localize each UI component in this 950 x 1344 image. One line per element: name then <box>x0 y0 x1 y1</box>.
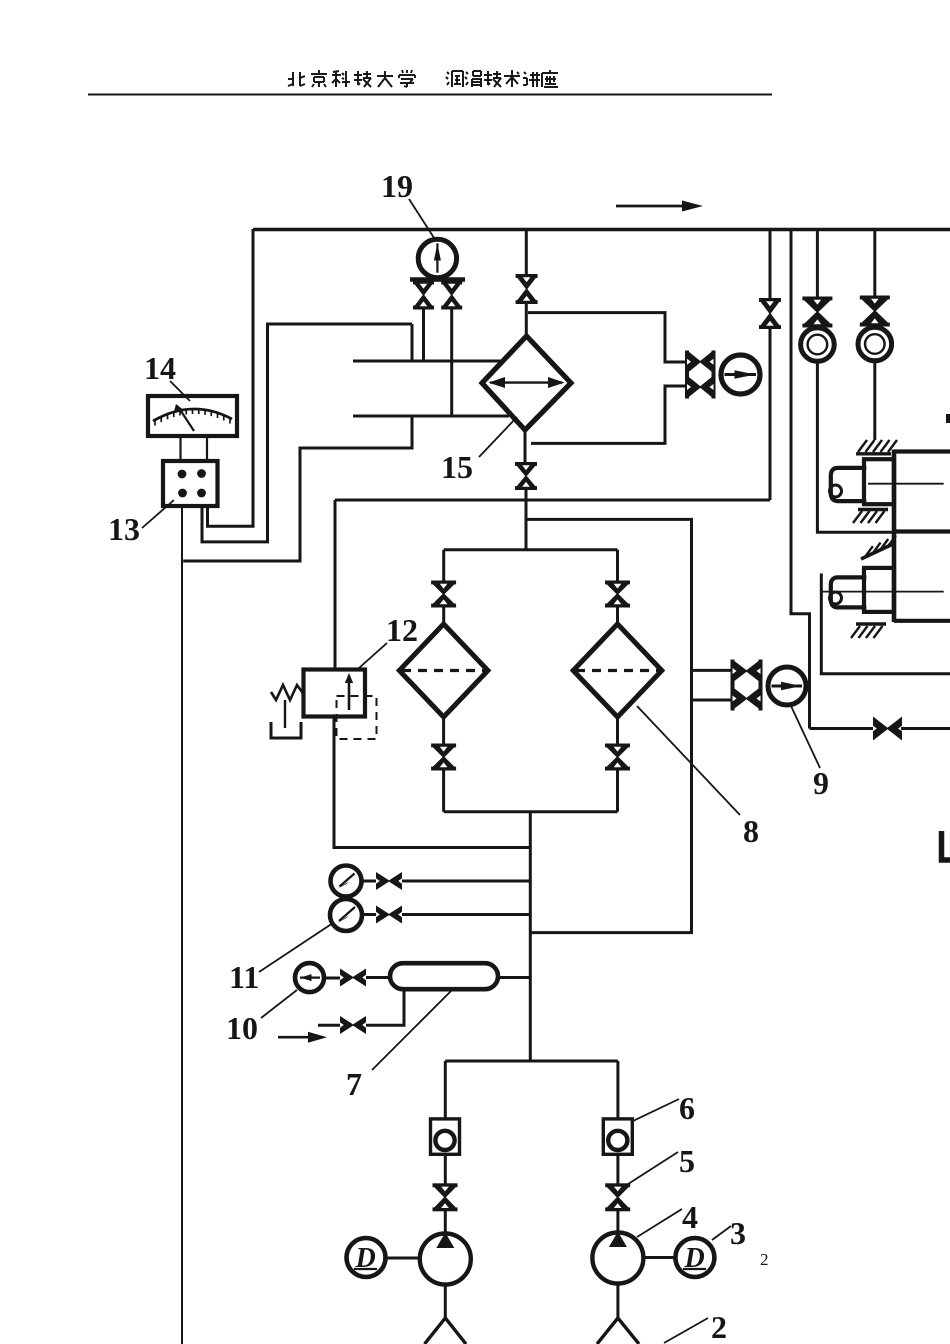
leader line 14 <box>170 381 190 401</box>
wire - from right valve down to water line 2 <box>450 308 453 416</box>
valve at gauge 10 <box>340 969 354 987</box>
wire - accumulator to main line <box>498 976 530 979</box>
valve on drop line D <box>860 296 890 300</box>
wire - filters bottom header <box>444 810 618 813</box>
wire - right valve to filter <box>616 607 619 625</box>
fill direction arrow <box>278 1036 313 1039</box>
wire - cooling water line 1 <box>353 360 501 363</box>
bearing 1 shaft <box>831 468 867 501</box>
wire - right motor link <box>643 1256 675 1259</box>
valve above left filter <box>431 581 456 585</box>
analog meter 14 <box>148 396 237 436</box>
svg-text:4: 4 <box>682 1199 698 1235</box>
wire - drop line A <box>769 229 772 298</box>
motor 3 (left) <box>347 1238 386 1277</box>
wire - left riser mid <box>444 1154 447 1184</box>
svg-text:9: 9 <box>813 765 829 801</box>
valve 5 (right) <box>605 1183 630 1187</box>
flow direction arrow (top) <box>616 205 688 208</box>
wire - drop line D lower <box>873 361 876 441</box>
wire - left frame down from header to junction box 13 <box>208 229 254 526</box>
accumulator 7 (capsule) <box>390 963 498 989</box>
wire - main supply line down <box>529 812 532 1061</box>
mill housing edge <box>892 450 897 623</box>
wire - drop line B with jog to bottom valve line <box>791 229 810 729</box>
leader line 10 <box>261 990 297 1018</box>
pressure gauge at heat exchanger <box>721 355 760 394</box>
bearing 1 ground hatch (bottom) <box>858 508 888 511</box>
wire - stub to gauge 9 valves (top) <box>692 669 733 672</box>
bearing 1 ground hatch (top) <box>856 452 891 455</box>
pressure gauge 11b <box>330 899 362 931</box>
check valve 6 (right) <box>603 1119 632 1154</box>
wire - valve to heat exchanger top <box>525 304 528 337</box>
wire - left pump suction <box>444 1285 447 1320</box>
svg-text:2: 2 <box>711 1309 727 1344</box>
valve 5 (left) <box>433 1183 458 1187</box>
svg-text:12: 12 <box>386 612 418 648</box>
wire - stub to gauge 9 valves (bottom) <box>692 699 733 702</box>
valve below right filter <box>605 744 630 748</box>
pump 4 (left) <box>420 1234 471 1285</box>
valve below gauge 19 (left) <box>413 281 434 285</box>
wire - right drop below valve <box>769 329 772 500</box>
valve pair at heat exchanger gauge <box>685 351 689 399</box>
pressure gauge 11a <box>331 866 362 897</box>
clipped mark at right edge <box>946 414 950 423</box>
relief valve drain to tank symbol <box>284 700 286 728</box>
wire - from left valve down to water line 1 <box>422 308 425 361</box>
valve on drop line C <box>802 297 832 301</box>
pressure gauge 9 <box>768 667 806 705</box>
svg-text:11: 11 <box>229 959 259 995</box>
valve at gauge 11b <box>376 906 390 924</box>
wire - right riser mid <box>616 1154 619 1184</box>
wire - right filter valve to bottom header <box>616 770 619 812</box>
svg-text:7: 7 <box>346 1066 362 1102</box>
relief valve 12 (box) <box>304 670 366 717</box>
leader line 6 <box>633 1099 679 1121</box>
leader line 13 <box>142 500 174 528</box>
wire - left valve to filter <box>442 607 445 625</box>
leader line 8 <box>637 706 740 815</box>
header underline rule <box>88 94 772 96</box>
leader line 9 <box>791 706 820 768</box>
valve on fill line <box>340 1016 354 1034</box>
filter right (diamond) <box>573 624 662 717</box>
wire - valve header bar under gauge 19 <box>410 277 465 282</box>
bearing 2 ground hatch (top) <box>861 544 893 559</box>
valve on right drop <box>759 298 781 302</box>
relief valve pilot dashed box <box>337 696 377 739</box>
svg-text:3: 3 <box>730 1215 746 1251</box>
wire - left filter bottom <box>442 717 445 744</box>
valve below gauge 19 (right) <box>441 281 462 285</box>
wire - main top header line <box>253 228 950 231</box>
sight glass on drop line D <box>858 327 892 361</box>
wire - drop line D <box>873 229 876 296</box>
wire - bypass line to the right <box>526 519 692 932</box>
wire - heat exchanger bottom to valve <box>524 430 527 462</box>
wire - gauge 11a line <box>402 880 530 883</box>
svg-text:10: 10 <box>226 1010 258 1046</box>
wire - fill line stub <box>318 1024 340 1027</box>
wire - right filter drop <box>616 550 619 581</box>
wire - gauge 10 stub <box>323 977 340 980</box>
svg-text:2: 2 <box>760 1250 769 1269</box>
wire - heat exchanger right bypass top <box>528 313 686 362</box>
wire - valve to accumulator <box>366 976 390 979</box>
wire - left riser lower <box>444 1211 447 1234</box>
wire - right riser lower <box>616 1211 619 1233</box>
svg-text:13: 13 <box>108 511 140 547</box>
wire - right pump riser upper <box>616 1061 619 1119</box>
wire - drop line C <box>816 229 819 297</box>
document header title text <box>292 72 294 86</box>
wire - drop from header to heat exchanger <box>525 229 528 274</box>
wire - frame stub down to water line <box>411 324 414 361</box>
leader line 5 <box>625 1152 678 1186</box>
heat exchanger 15 (diamond) <box>482 336 571 430</box>
wire - bottom line to mill stand <box>810 727 875 730</box>
bearing 2 shaft centerline <box>822 591 944 593</box>
relief valve spring <box>271 685 304 700</box>
motor 3 (right) <box>675 1238 714 1277</box>
bearing 2 ground hatch (bottom) <box>856 622 886 625</box>
wire - cross line to relief valve <box>335 499 770 502</box>
strainer legs (left) <box>425 1318 467 1344</box>
leader line 15 <box>479 417 517 457</box>
sight glass on drop line C <box>801 328 835 362</box>
wire - valve down to filter header <box>525 490 528 550</box>
wire - right pump suction <box>616 1284 619 1319</box>
leader line 4 <box>637 1209 682 1237</box>
svg-text:5: 5 <box>679 1143 695 1179</box>
valve below heat exchanger <box>515 462 537 466</box>
svg-text:14: 14 <box>144 350 176 386</box>
strainer legs (right) <box>597 1318 639 1344</box>
bearing 2 chock <box>864 568 894 612</box>
wire - meter to junction box (left) <box>179 436 181 461</box>
wire - water line elbow to drain <box>183 416 412 561</box>
wire - right drop with valve to cross line <box>769 229 772 298</box>
svg-text:19: 19 <box>381 168 413 204</box>
wire - left filter valve to bottom header <box>442 770 445 812</box>
wire - gauge 11a stub <box>362 880 377 883</box>
wire - bearing 2 drain down and right <box>821 574 950 674</box>
svg-text:6: 6 <box>679 1090 695 1126</box>
wire - right filter bottom <box>616 717 619 744</box>
wire - gauge 11b stub <box>362 913 377 916</box>
wire - left filter drop <box>442 550 445 581</box>
valve pair at gauge 9 <box>731 660 735 711</box>
svg-text:15: 15 <box>441 449 473 485</box>
junction box 13 <box>163 461 218 506</box>
valve at gauge 11a <box>376 872 390 890</box>
leader line 3 <box>712 1226 731 1240</box>
wire - cooling water line 2 <box>353 415 509 418</box>
leader line 19 <box>409 199 436 241</box>
valve below left filter <box>431 744 456 748</box>
wire - gauge 11b line <box>402 913 530 916</box>
valve above heat exchanger <box>516 274 538 278</box>
wire - meter to junction box (right) <box>206 436 208 461</box>
wire - second frame top <box>202 324 412 542</box>
filter left (diamond) <box>399 624 488 717</box>
check valve 6 (left) <box>431 1119 460 1154</box>
pump 4 (right) <box>592 1233 643 1284</box>
wire - heat exchanger right bypass bottom <box>531 386 686 443</box>
wire - long drain line to bottom <box>181 506 183 1344</box>
leader line 2 <box>664 1318 708 1343</box>
pressure gauge 19 <box>418 239 456 277</box>
leader line 11 <box>259 923 333 972</box>
bearing 1 shaft centerline <box>868 483 944 485</box>
valve on bottom mill line <box>873 717 889 741</box>
wire - relief valve drain line <box>334 717 530 848</box>
wire - filters top header <box>444 548 618 551</box>
wire - relief valve inlet <box>334 500 337 670</box>
leader line 7 <box>372 990 452 1070</box>
pressure gauge 10 <box>295 963 324 992</box>
wire - left pump riser upper <box>444 1061 447 1119</box>
leader line 12 <box>359 643 387 668</box>
bearing 1 chock <box>864 459 894 504</box>
wire - drop line C lower <box>817 361 892 532</box>
wire - left motor link <box>386 1257 420 1260</box>
wire - bottom mill line to page edge <box>901 727 950 730</box>
bearing 2 shaft <box>831 577 867 607</box>
svg-text:8: 8 <box>743 813 759 849</box>
clipped symbol at right edge (L shape) <box>942 831 950 860</box>
wire - accumulator fill line <box>366 989 404 1025</box>
wire - pump suction header <box>445 1060 618 1063</box>
valve above right filter <box>605 581 630 585</box>
